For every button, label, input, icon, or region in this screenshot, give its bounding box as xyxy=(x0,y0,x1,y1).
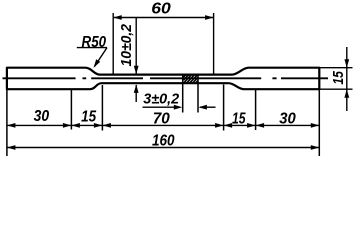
dimension 3±0.2 xyxy=(143,91,216,110)
extension line at 15|70 xyxy=(101,85,103,131)
svg-text:30: 30 xyxy=(34,108,50,125)
extension line right of 60 xyxy=(213,13,215,74)
extension line at 30|15 xyxy=(70,89,72,129)
dimension 10±0.2 xyxy=(118,18,139,103)
dimension line row1 xyxy=(7,124,319,126)
leader shelf xyxy=(143,106,181,108)
extension line - hatch right xyxy=(197,75,199,113)
dimension line 60 xyxy=(113,17,213,19)
svg-text:10±0,2: 10±0,2 xyxy=(118,23,135,66)
underline xyxy=(77,47,107,49)
extension line at 15|30 xyxy=(255,89,257,130)
dimension 15 right xyxy=(319,47,352,111)
right arrow segment xyxy=(200,106,216,108)
svg-text:30: 30 xyxy=(279,110,296,127)
extension line top edge extended xyxy=(319,67,352,69)
dimension line 15 vertical xyxy=(346,47,348,111)
section hatch xyxy=(183,75,198,84)
specimen outline xyxy=(7,68,319,90)
extension line at 70|15 xyxy=(223,85,225,131)
svg-text:15: 15 xyxy=(330,71,347,85)
dimension 60 xyxy=(113,1,213,74)
svg-text:60: 60 xyxy=(151,1,171,18)
extension line left edge down xyxy=(6,89,8,156)
dimension line lower xyxy=(135,85,137,102)
dimension row 30 15 70 15 30 xyxy=(7,108,319,128)
svg-text:15: 15 xyxy=(81,108,97,125)
svg-text:R50: R50 xyxy=(82,34,107,51)
extension line right edge down xyxy=(318,89,320,156)
svg-text:15: 15 xyxy=(232,110,246,127)
dimension line upper xyxy=(135,18,137,74)
radius callout R50 xyxy=(77,34,107,68)
extension line bottom edge extended xyxy=(319,88,352,90)
centerline xyxy=(3,77,329,79)
dimension line 160 xyxy=(7,147,319,149)
extension line left of 60 xyxy=(112,13,114,74)
dimension 160 xyxy=(7,133,319,150)
extension line - hatch left xyxy=(182,75,184,113)
svg-text:160: 160 xyxy=(152,133,175,150)
leader line xyxy=(95,48,108,67)
svg-text:70: 70 xyxy=(153,110,170,127)
